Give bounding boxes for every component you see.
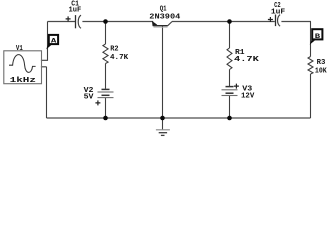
svg-text:12V: 12V [241, 92, 254, 100]
svg-text:V1: V1 [16, 45, 23, 53]
svg-text:5V: 5V [84, 93, 94, 101]
svg-text:1kHz: 1kHz [10, 76, 37, 85]
svg-text:1uF: 1uF [69, 6, 82, 14]
svg-text:4.7K: 4.7K [110, 54, 128, 62]
svg-text:1uF: 1uF [271, 8, 285, 16]
svg-text:R2: R2 [110, 45, 118, 53]
svg-text:10K: 10K [315, 67, 327, 75]
svg-text:4.7K: 4.7K [234, 56, 259, 64]
svg-text:B: B [315, 33, 321, 41]
svg-text:A: A [51, 38, 57, 46]
svg-text:R3: R3 [317, 59, 326, 67]
svg-text:2N3904: 2N3904 [149, 13, 180, 21]
svg-text:Q1: Q1 [160, 5, 167, 13]
